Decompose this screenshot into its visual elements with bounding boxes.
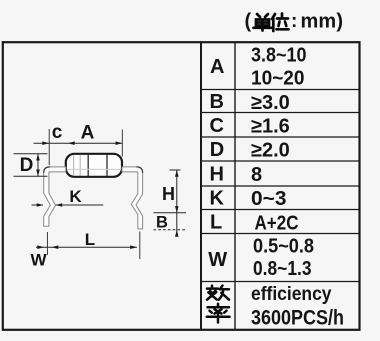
- 效: [207, 286, 229, 300]
- svg-text:A+2C: A+2C: [255, 213, 299, 235]
- svg-text:0~3: 0~3: [251, 188, 287, 210]
- svg-text:≥1.6: ≥1.6: [251, 116, 290, 138]
- table row lines: [201, 89, 360, 91]
- svg-text:0.5~0.8: 0.5~0.8: [253, 236, 314, 258]
- dimension L/W: [36, 232, 140, 260]
- svg-text:≥3.0: ≥3.0: [251, 92, 290, 114]
- svg-text:H: H: [210, 164, 224, 186]
- svg-text:0.8~1.3: 0.8~1.3: [253, 258, 312, 280]
- svg-text:D: D: [210, 139, 224, 161]
- svg-text::: :: [291, 11, 297, 32]
- arrowheads on c/A: [42, 141, 122, 145]
- svg-text:3.8~10: 3.8~10: [251, 45, 307, 67]
- svg-text:10~20: 10~20: [251, 68, 305, 90]
- 率: [207, 304, 230, 323]
- extension line at body right for A: [121, 130, 123, 157]
- dimension D: [14, 154, 48, 176]
- svg-text:W: W: [208, 249, 227, 271]
- svg-text:K: K: [210, 188, 225, 210]
- svg-text:(: (: [245, 11, 252, 33]
- component body (axial): [66, 154, 122, 177]
- svg-text:H: H: [162, 184, 175, 204]
- body bands: [73, 155, 75, 176]
- table letter column: [208, 56, 227, 271]
- left lead axis wire (gray): [49, 168, 66, 170]
- separator line (kink level): [154, 212, 187, 214]
- header unit label (单位:mm): [245, 11, 344, 33]
- dimension H/B: [154, 170, 187, 237]
- svg-text:D: D: [20, 155, 34, 176]
- svg-text:W: W: [30, 251, 47, 270]
- svg-text:3600PCS/h: 3600PCS/h: [251, 306, 344, 330]
- outer frame: [3, 42, 360, 330]
- svg-text:mm): mm): [301, 11, 344, 33]
- dimension c/A line: [34, 129, 123, 165]
- left lead bend outer arc: [44, 167, 50, 173]
- svg-text:L: L: [210, 212, 222, 234]
- svg-text:K: K: [69, 187, 82, 206]
- body axis line (faint): [67, 168, 121, 170]
- svg-text:A: A: [210, 56, 224, 78]
- svg-text:A: A: [81, 123, 95, 144]
- table 效率 row label: [207, 286, 230, 323]
- table left border: [200, 42, 202, 330]
- table letter/value divider: [234, 42, 236, 330]
- extension below left lead: [46, 232, 48, 255]
- svg-text:B: B: [156, 214, 168, 232]
- vertical dim line: [176, 170, 178, 237]
- extension line at lead for c: [48, 129, 50, 165]
- svg-text:8: 8: [251, 164, 262, 186]
- 单: [254, 14, 272, 31]
- right lead (bent with kink, kink to left): [122, 167, 143, 229]
- svg-text:L: L: [85, 230, 95, 249]
- right lead axis wire (gray): [122, 168, 140, 170]
- svg-text:c: c: [52, 122, 63, 143]
- svg-text:≥2.0: ≥2.0: [251, 140, 290, 162]
- svg-text:B: B: [210, 91, 224, 113]
- 位: [272, 14, 289, 32]
- svg-text:C: C: [210, 115, 224, 137]
- right lead bend outer arc: [137, 167, 143, 173]
- table values: [251, 45, 344, 330]
- extension below right lead: [139, 232, 141, 260]
- left lead (bent with kink): [44, 167, 66, 226]
- dimension K: [32, 204, 104, 206]
- top tick: [170, 169, 181, 171]
- dashed line (lead bottom level): [154, 229, 187, 231]
- svg-text:efficiency: efficiency: [251, 284, 332, 305]
